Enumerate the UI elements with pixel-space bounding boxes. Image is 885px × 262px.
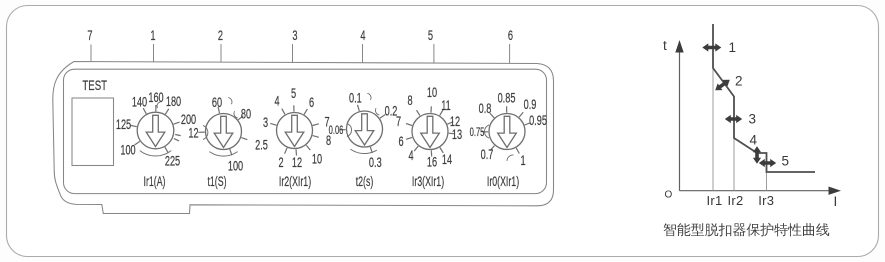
svg-text:0.95: 0.95 [529,113,547,128]
svg-text:4: 4 [274,94,279,109]
callout leader line 3 [292,44,294,86]
rotary switch 2 t1 knob circle [206,114,242,150]
svg-text:10: 10 [427,85,438,100]
svg-text:6: 6 [398,134,403,149]
rotary switch 2 t1 ticks [218,107,219,113]
svg-text:t: t [663,38,667,53]
rotary switch 4 t2 knob circle [347,111,383,147]
svg-text:1: 1 [729,40,737,55]
callout leader line 6 [509,44,511,84]
svg-text:Ir2(XIr1): Ir2(XIr1) [279,173,311,190]
svg-text:Ir1(A): Ir1(A) [144,173,166,190]
svg-text:2: 2 [278,155,283,170]
svg-text:16: 16 [427,155,438,170]
svg-text:2: 2 [735,74,743,89]
rotary switch 3 Ir2 knob arrow [285,115,304,146]
rotary switch 1 Ir1 knob arrow [146,115,165,146]
callout leader line 5 [433,44,435,85]
Ir3 reference line [766,153,768,191]
svg-text:180: 180 [166,94,182,109]
svg-text:11: 11 [441,98,451,113]
svg-text:7: 7 [87,27,92,44]
svg-text:225: 225 [165,154,181,169]
svg-text:t2(s): t2(s) [356,173,374,190]
svg-text:5: 5 [428,27,433,44]
svg-text:3: 3 [749,112,757,127]
rotary switch 3 Ir2 ticks [293,105,295,111]
svg-text:80: 80 [241,107,252,122]
svg-text:10: 10 [312,152,323,167]
callout leader line 7 [90,45,92,76]
svg-text:4: 4 [408,148,413,163]
svg-text:4: 4 [750,133,758,148]
svg-text:12: 12 [188,126,198,141]
svg-text:Ir3(XIr1): Ir3(XIr1) [412,173,444,190]
svg-text:Ir1: Ir1 [706,193,722,208]
svg-text:160: 160 [148,90,164,105]
caption: intelligent trip unit protection characteristic curve (Chinese) [664,223,830,237]
svg-text:0.8: 0.8 [479,101,492,116]
callout leader line 2 [220,44,222,83]
trip unit outer case outline [53,62,554,214]
Ir1 reference line [712,68,714,191]
svg-text:6: 6 [309,95,314,110]
rotary switch 1 Ir1 knob circle [137,112,174,149]
callout leader line 1 [153,44,155,81]
svg-text:TEST: TEST [82,79,107,94]
svg-text:14: 14 [442,152,453,167]
svg-text:6: 6 [508,27,513,44]
protection characteristic curve [713,24,815,172]
svg-text:0.75: 0.75 [470,127,485,140]
rotary switch 5 Ir3 knob circle [412,114,448,150]
svg-text:2.5: 2.5 [255,138,268,153]
callout leader line 4 [362,44,364,87]
svg-text:1: 1 [520,153,525,168]
rotary switch 3 Ir2 knob circle [277,113,313,149]
svg-text:1: 1 [150,27,155,44]
rotary switch 4 t2 range arc [350,149,376,153]
tolerance arrow 2 [715,80,730,91]
rotary switch 4 t2 knob arrow [355,114,374,145]
tolerance arrow 1 [702,43,721,51]
svg-text:140: 140 [132,95,148,110]
svg-text:13: 13 [452,127,463,142]
svg-text:4: 4 [360,27,365,44]
svg-text:2: 2 [218,27,223,44]
rotary switch 2 t1 range arc [209,152,237,156]
rotary switch 2 t1 knob arrow [214,116,233,147]
I axis (horizontal) [680,190,832,192]
svg-text:5: 5 [782,154,790,169]
svg-text:0.9: 0.9 [524,97,537,112]
tolerance arrow 5 [759,159,776,167]
svg-text:100: 100 [120,143,136,158]
svg-text:0.7: 0.7 [481,147,494,162]
t axis (vertical) [679,50,681,191]
rotary switch 5 Ir3 knob arrow [421,116,440,147]
svg-text:I: I [834,194,838,209]
svg-text:125: 125 [116,117,132,132]
rotary switch 6 Ir0 range arc [484,125,489,138]
Ir2 reference line [733,97,735,191]
svg-text:Ir0(XIr1): Ir0(XIr1) [487,173,519,190]
rotary switch 1 Ir1 range arc [140,151,171,156]
rotary switch 6 Ir0 knob arrow [498,116,517,147]
svg-text:0.85: 0.85 [498,91,516,106]
svg-text:0.1: 0.1 [349,91,362,106]
rotary switch 5 Ir3 ticks [430,106,432,112]
svg-text:7: 7 [396,114,401,129]
svg-text:Ir2: Ir2 [727,193,743,208]
svg-text:3: 3 [263,115,268,130]
svg-text:100: 100 [228,159,244,174]
svg-text:12: 12 [292,155,302,170]
svg-text:O: O [665,189,673,200]
svg-text:t1(S): t1(S) [207,173,226,190]
rotary switch 6 Ir0 knob circle [489,114,525,150]
rotary switch 6 Ir0 ticks [506,106,508,112]
svg-text:0.06: 0.06 [329,125,344,138]
rotary switch 1 Ir1 ticks [143,108,146,114]
svg-text:Ir3: Ir3 [758,193,774,208]
svg-text:0.3: 0.3 [369,155,382,170]
tolerance arrow 3 [725,115,742,123]
svg-text:5: 5 [291,86,296,101]
trip unit inner faceplate [64,69,547,193]
svg-text:8: 8 [407,93,412,108]
rotary switch 4 t2 ticks [358,105,360,111]
svg-text:60: 60 [212,95,223,110]
svg-text:3: 3 [292,27,297,44]
TEST button [72,98,114,166]
tolerance arrow 4 [753,146,761,164]
